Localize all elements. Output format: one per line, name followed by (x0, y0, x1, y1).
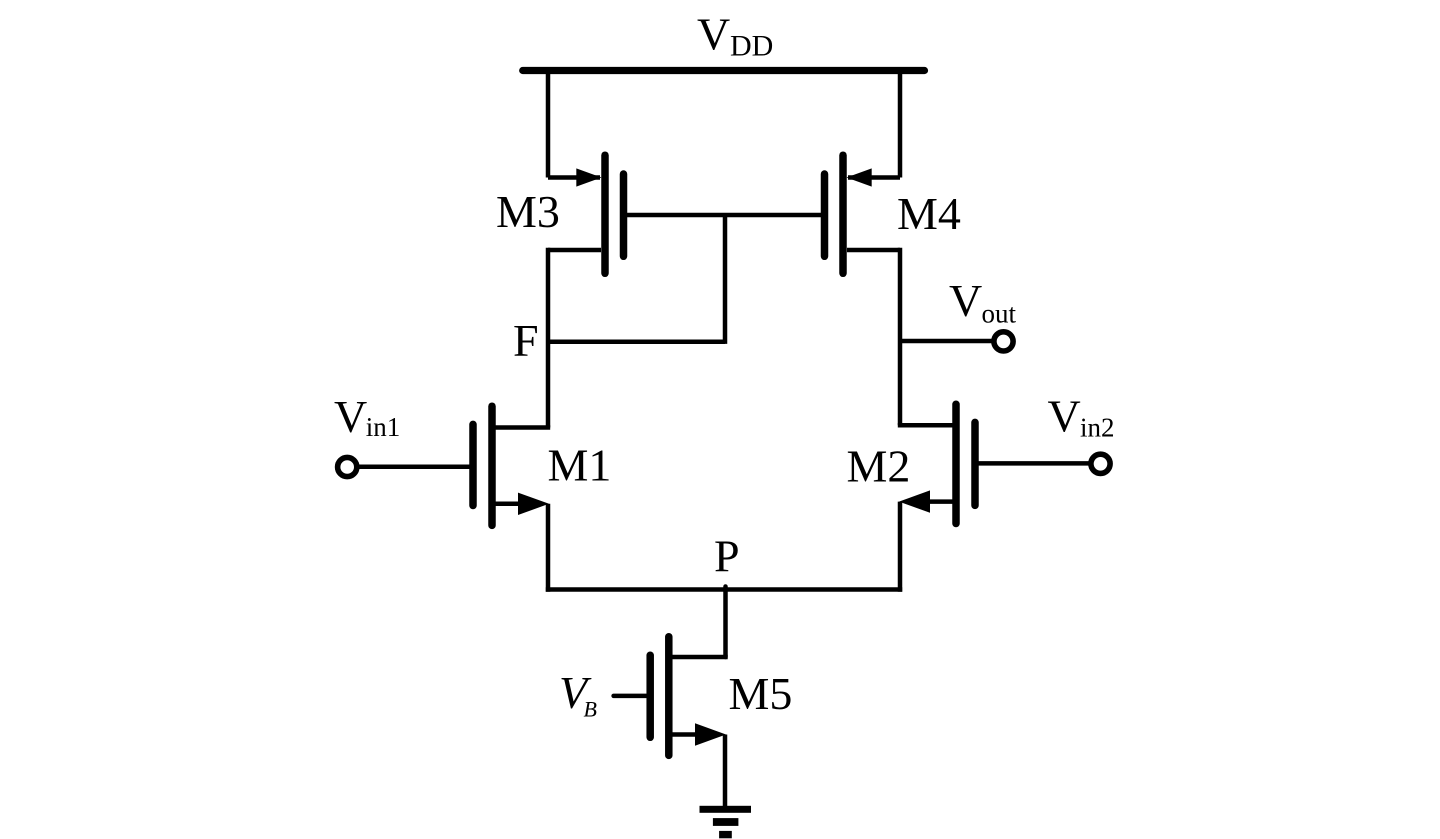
svg-text:M1: M1 (548, 440, 612, 491)
svg-text:in2: in2 (1080, 412, 1115, 442)
svg-text:V: V (697, 8, 730, 59)
svg-text:M4: M4 (897, 188, 961, 239)
svg-text:M2: M2 (847, 441, 911, 492)
svg-text:V: V (949, 275, 982, 326)
svg-text:M5: M5 (729, 668, 793, 719)
svg-text:M3: M3 (496, 186, 560, 237)
svg-text:V: V (334, 391, 367, 442)
svg-text:in1: in1 (366, 412, 401, 442)
svg-text:DD: DD (730, 29, 773, 62)
svg-text:P: P (714, 531, 740, 582)
svg-text:F: F (513, 315, 539, 366)
svg-text:B: B (584, 697, 597, 722)
svg-text:out: out (982, 298, 1017, 328)
svg-text:V: V (1048, 391, 1081, 442)
